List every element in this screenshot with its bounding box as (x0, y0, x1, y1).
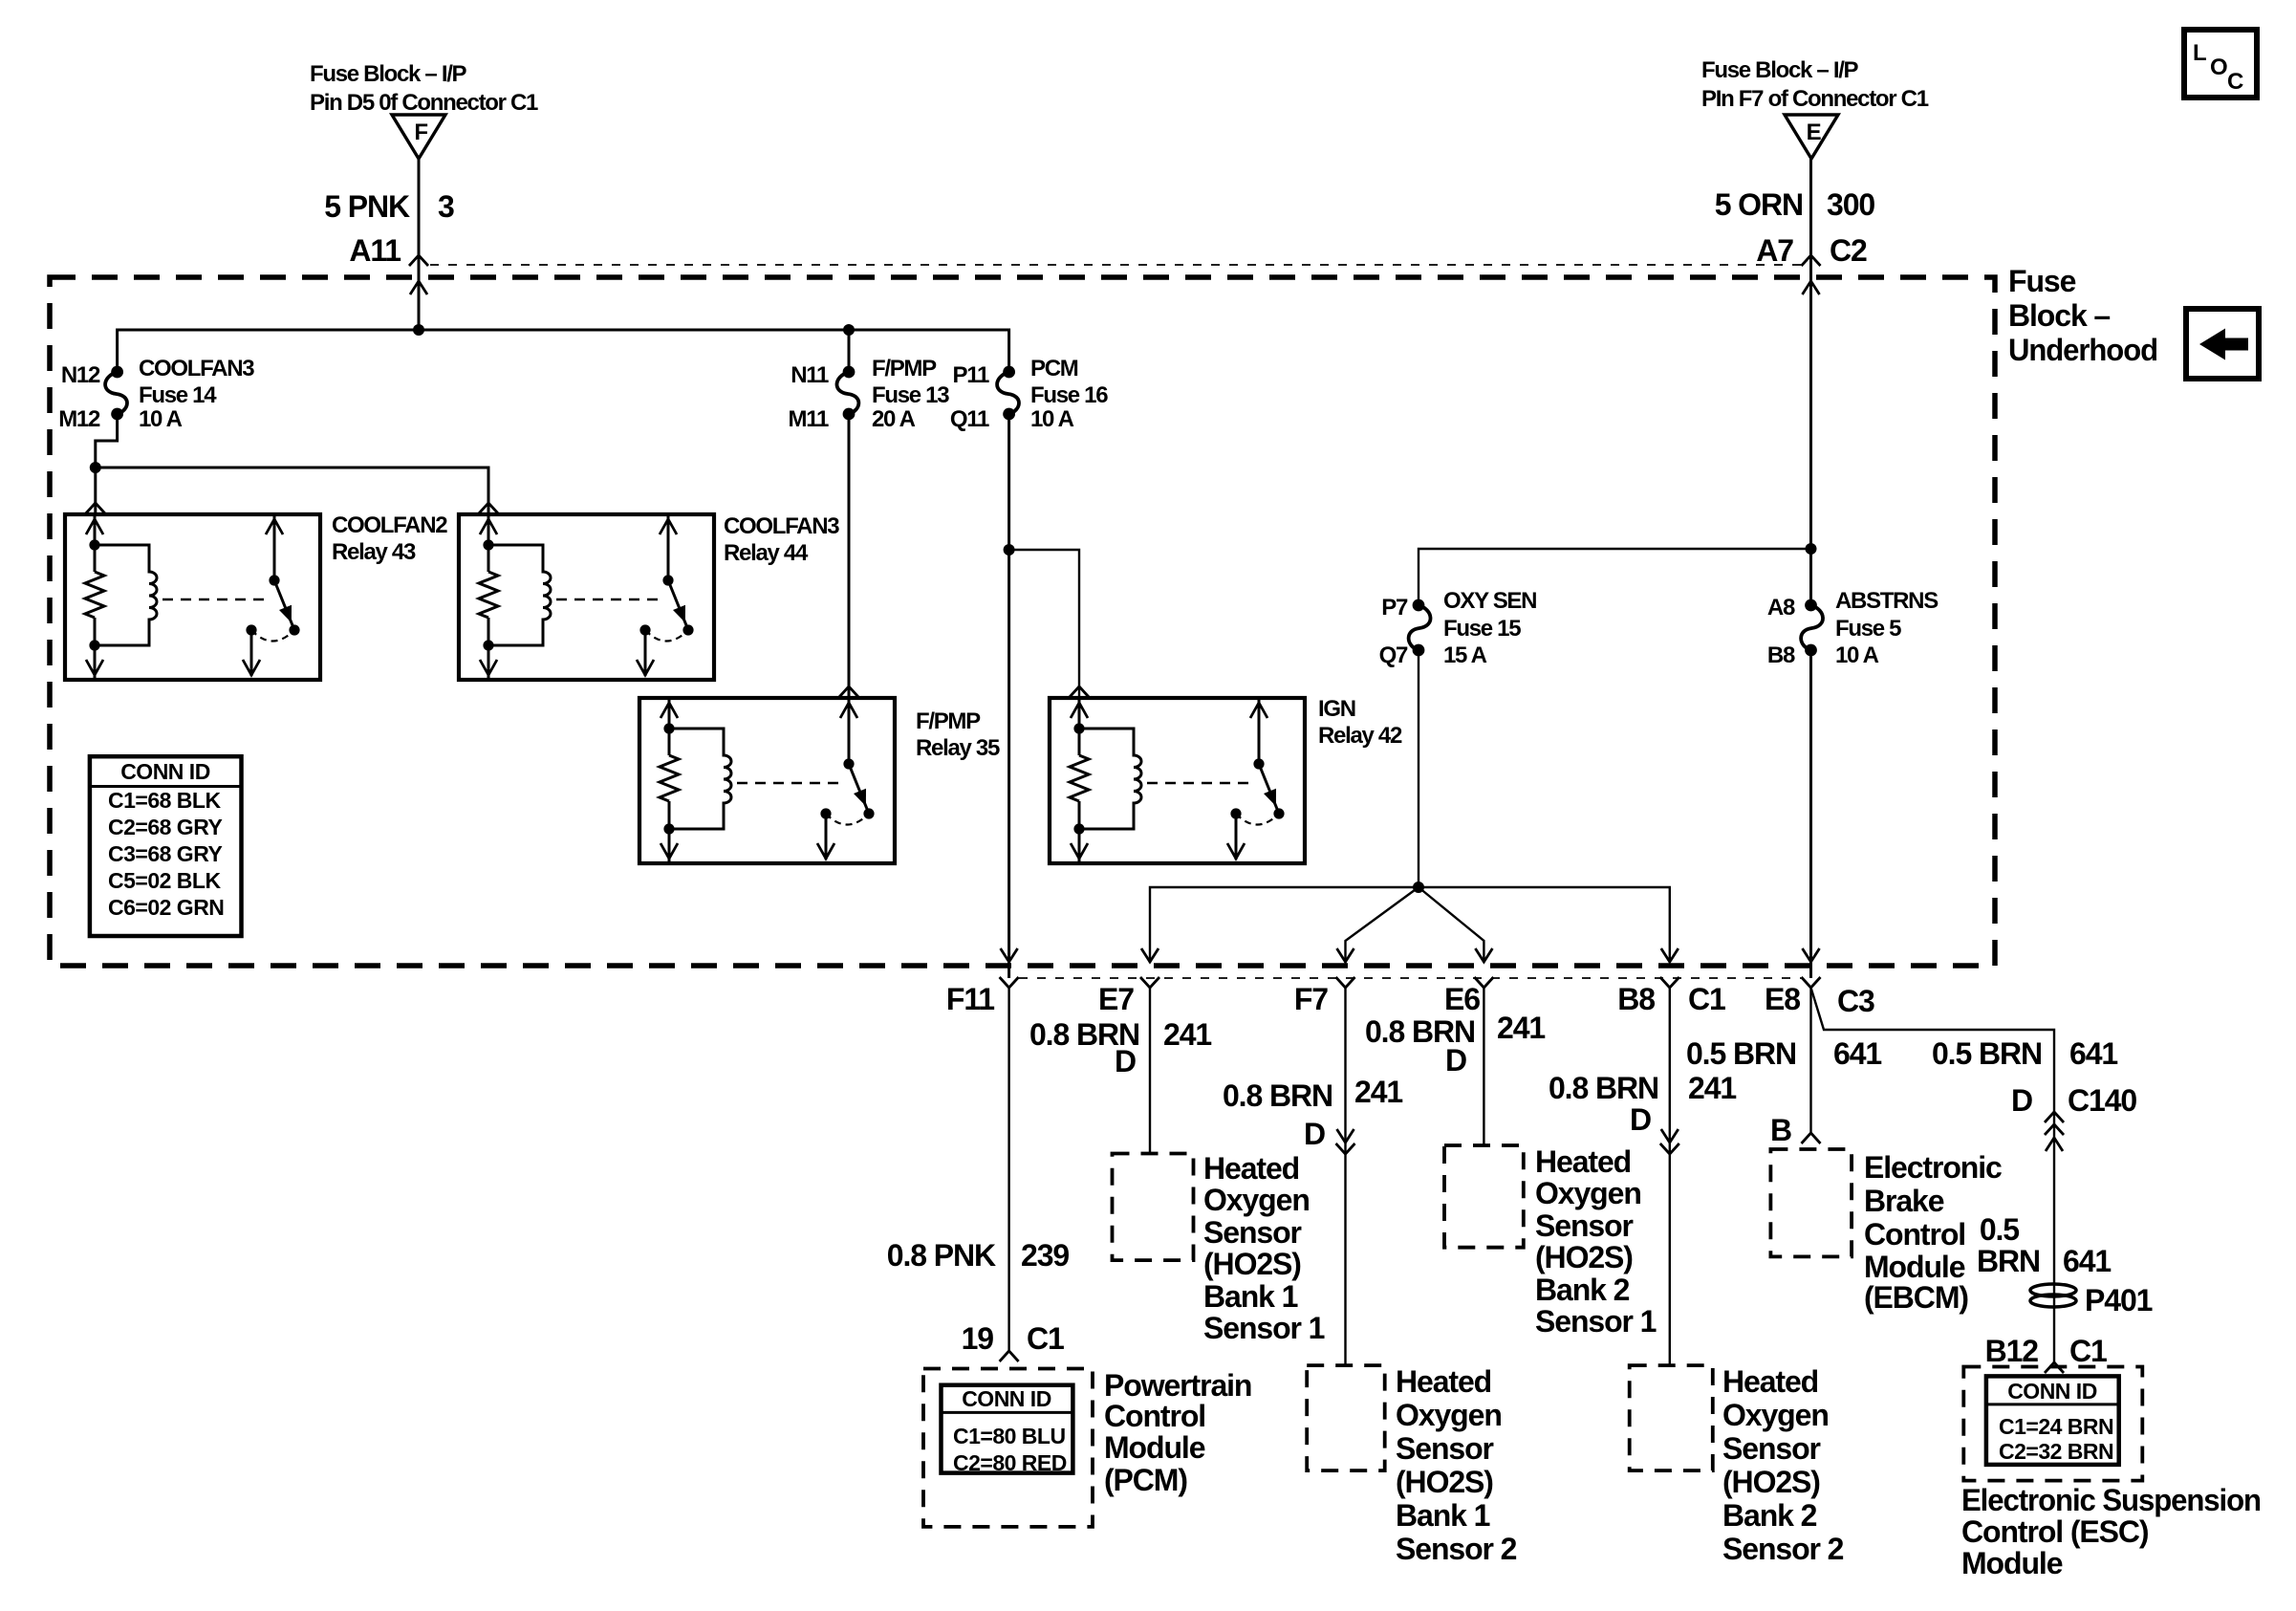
fan-out wire to E7 (1150, 887, 1419, 963)
HO2S Bank1 Sensor1 module (1113, 1151, 1325, 1345)
svg-text:A7: A7 (1756, 233, 1793, 268)
svg-text:300: 300 (1827, 187, 1874, 222)
svg-text:C2=80 RED: C2=80 RED (953, 1450, 1067, 1475)
svg-text:OXY SEN: OXY SEN (1443, 588, 1536, 614)
svg-text:C2=32 BRN: C2=32 BRN (1999, 1439, 2113, 1464)
fuse 5 ABSTRNS (1767, 588, 1939, 668)
svg-text:B12: B12 (1985, 1334, 2039, 1368)
svg-text:C2: C2 (1830, 233, 1867, 268)
svg-text:0.5 BRN: 0.5 BRN (1686, 1036, 1796, 1071)
wire F11 to PCM (0.8 PNK 239) (887, 988, 1070, 1361)
svg-text:Fuse 15: Fuse 15 (1443, 616, 1521, 642)
svg-text:C3: C3 (1837, 984, 1874, 1018)
svg-text:Bank 2: Bank 2 (1722, 1498, 1817, 1533)
svg-text:Oxygen: Oxygen (1396, 1398, 1502, 1432)
svg-text:Sensor 2: Sensor 2 (1396, 1532, 1517, 1566)
svg-text:COOLFAN3: COOLFAN3 (724, 513, 839, 539)
svg-text:COOLFAN2: COOLFAN2 (332, 512, 447, 538)
svg-text:CONN ID: CONN ID (962, 1386, 1051, 1411)
svg-text:19: 19 (962, 1321, 994, 1356)
svg-text:C1: C1 (2069, 1334, 2107, 1368)
svg-text:BRN: BRN (1977, 1244, 2040, 1278)
svg-text:Heated: Heated (1535, 1144, 1631, 1179)
svg-text:C140: C140 (2068, 1083, 2136, 1118)
svg-text:Underhood: Underhood (2008, 333, 2157, 367)
svg-text:D: D (2011, 1083, 2032, 1118)
wire F7 to HO2S B1S2 (0.8 BRN 241 D) (1223, 988, 1402, 1365)
svg-text:A11: A11 (349, 233, 401, 268)
svg-text:Electronic: Electronic (1864, 1150, 2002, 1185)
EBCM module (1770, 1149, 2002, 1315)
svg-text:0.8 PNK: 0.8 PNK (887, 1238, 996, 1273)
grommet P401 (2030, 1283, 2153, 1317)
ESC module (1961, 1367, 2261, 1581)
connector E triangle (Fuse Block I/P) (1701, 57, 1929, 159)
svg-text:L: L (2193, 40, 2206, 66)
svg-text:Relay 43: Relay 43 (332, 539, 416, 565)
svg-text:5 PNK: 5 PNK (324, 189, 410, 224)
svg-text:0.5 BRN: 0.5 BRN (1932, 1036, 2042, 1071)
svg-text:Sensor: Sensor (1535, 1208, 1634, 1243)
svg-text:Module: Module (1104, 1430, 1205, 1465)
svg-text:Block –: Block – (2008, 298, 2110, 333)
svg-text:E8: E8 (1765, 982, 1800, 1016)
svg-text:C1=80 BLU: C1=80 BLU (953, 1424, 1066, 1448)
svg-text:PIn F7 of Connector C1: PIn F7 of Connector C1 (1701, 86, 1929, 112)
wire fuse16 down to F11 exit (1004, 414, 1015, 978)
svg-text:(HO2S): (HO2S) (1203, 1247, 1301, 1281)
svg-text:C1: C1 (1027, 1321, 1064, 1356)
svg-text:Bank 2: Bank 2 (1535, 1273, 1630, 1307)
svg-text:N12: N12 (61, 362, 100, 388)
wire E8 to EBCM (0.5 BRN 641 B) (1686, 988, 1881, 1147)
connector F triangle (Fuse Block I/P) (310, 61, 538, 159)
svg-text:B8: B8 (1767, 642, 1795, 668)
svg-text:641: 641 (2063, 1244, 2111, 1278)
svg-text:C2=68 GRY: C2=68 GRY (108, 815, 222, 839)
svg-text:Relay 42: Relay 42 (1318, 723, 1402, 749)
fuse 15 OXY SEN (1379, 588, 1537, 668)
svg-text:Sensor: Sensor (1396, 1431, 1494, 1466)
node relay feed junction (90, 462, 101, 473)
connector Y symbols at C1/C3 line (1000, 977, 1821, 988)
svg-text:241: 241 (1497, 1011, 1545, 1045)
svg-text:Heated: Heated (1722, 1364, 1818, 1399)
svg-text:Q11: Q11 (950, 406, 989, 432)
svg-text:Oxygen: Oxygen (1203, 1183, 1310, 1217)
svg-text:C1=68 BLK: C1=68 BLK (108, 788, 221, 813)
svg-text:Sensor 1: Sensor 1 (1535, 1304, 1657, 1339)
wire label 0.5 BRN 641 lower (1977, 1212, 2111, 1278)
svg-text:641: 641 (2069, 1036, 2117, 1071)
svg-text:B: B (1770, 1113, 1791, 1147)
svg-text:Fuse Block – I/P: Fuse Block – I/P (1701, 57, 1859, 83)
fuse 16 PCM (950, 356, 1108, 432)
svg-text:Sensor: Sensor (1722, 1431, 1821, 1466)
svg-text:Control (ESC): Control (ESC) (1961, 1514, 2149, 1549)
svg-text:C6=02 GRN: C6=02 GRN (108, 895, 224, 920)
svg-text:Fuse 5: Fuse 5 (1835, 616, 1901, 642)
HO2S Bank1 Sensor2 module (1307, 1364, 1516, 1566)
LOC box (2184, 30, 2257, 98)
Fuse Block Underhood dashed box (50, 264, 2157, 966)
pin labels bottom connector row (946, 982, 1874, 1018)
svg-text:O: O (2210, 54, 2227, 80)
svg-text:20 A: 20 A (872, 406, 916, 432)
svg-text:Pin D5 0f Connector C1: Pin D5 0f Connector C1 (310, 90, 538, 116)
svg-text:Electronic Suspension: Electronic Suspension (1961, 1483, 2261, 1517)
svg-text:F7: F7 (1294, 982, 1328, 1016)
svg-text:241: 241 (1163, 1017, 1211, 1052)
svg-text:C3=68 GRY: C3=68 GRY (108, 841, 222, 866)
svg-text:239: 239 (1021, 1238, 1069, 1273)
svg-text:N11: N11 (791, 362, 829, 388)
svg-text:D: D (1445, 1043, 1466, 1078)
svg-text:F: F (414, 120, 427, 145)
svg-text:3: 3 (438, 189, 454, 224)
svg-text:E: E (1807, 120, 1822, 145)
svg-text:Control: Control (1864, 1217, 1965, 1252)
svg-text:241: 241 (1688, 1071, 1736, 1105)
border arrows at fuse block exits (1001, 948, 1820, 962)
svg-text:Heated: Heated (1396, 1364, 1491, 1399)
svg-text:Bank 1: Bank 1 (1396, 1498, 1490, 1533)
svg-text:241: 241 (1354, 1075, 1402, 1109)
fuse 14 COOLFAN3 (58, 356, 254, 432)
svg-text:Sensor: Sensor (1203, 1215, 1302, 1250)
svg-text:E7: E7 (1098, 982, 1134, 1016)
svg-text:P11: P11 (953, 362, 989, 388)
svg-text:P401: P401 (2085, 1283, 2153, 1317)
arrow box (back reference) (2186, 309, 2259, 379)
svg-text:B8: B8 (1617, 982, 1655, 1016)
svg-text:D: D (1304, 1117, 1325, 1151)
node bus/A11 junction (413, 324, 424, 336)
svg-text:Fuse: Fuse (2008, 264, 2076, 298)
svg-text:Control: Control (1104, 1399, 1205, 1433)
svg-text:0.8 BRN: 0.8 BRN (1223, 1078, 1332, 1113)
wire E7 to HO2S B1S1 (0.8 BRN 241 D) (1029, 988, 1211, 1154)
fan-out wire to E6 (1419, 887, 1484, 963)
svg-text:Sensor 1: Sensor 1 (1203, 1311, 1325, 1345)
svg-text:(HO2S): (HO2S) (1396, 1465, 1493, 1499)
svg-text:Fuse 14: Fuse 14 (139, 382, 217, 408)
svg-text:Oxygen: Oxygen (1535, 1176, 1641, 1210)
svg-text:C1: C1 (1688, 982, 1725, 1016)
relay 35 F/PMP (639, 698, 1000, 863)
relay 44 COOLFAN3 (459, 513, 839, 680)
node PCM fuse output junction (1004, 544, 1015, 555)
svg-text:M12: M12 (58, 406, 100, 432)
thin connector line bottom (1019, 977, 1801, 979)
svg-text:Fuse Block – I/P: Fuse Block – I/P (310, 61, 467, 87)
fuse 13 F/PMP (789, 356, 950, 432)
fan-out wire to B8 (1419, 887, 1670, 963)
HO2S Bank2 Sensor1 module (1444, 1144, 1657, 1339)
svg-text:(PCM): (PCM) (1104, 1463, 1187, 1497)
svg-text:CONN ID: CONN ID (120, 759, 210, 784)
svg-text:(HO2S): (HO2S) (1535, 1240, 1633, 1274)
svg-text:(HO2S): (HO2S) (1722, 1465, 1820, 1499)
svg-text:Q7: Q7 (1379, 642, 1408, 668)
wire fuse13 to relay35 (839, 330, 858, 698)
svg-text:10 A: 10 A (1030, 406, 1074, 432)
fan-out wire to F7 (1346, 887, 1419, 963)
svg-text:Relay 35: Relay 35 (916, 735, 1000, 761)
svg-text:(EBCM): (EBCM) (1864, 1280, 1968, 1315)
wire fuse15 to fan-out junction (1413, 650, 1424, 893)
branch to IGN relay coil (1009, 550, 1079, 698)
svg-text:Module: Module (1961, 1546, 2063, 1580)
svg-text:Module: Module (1864, 1250, 1965, 1284)
svg-text:Fuse 13: Fuse 13 (872, 382, 949, 408)
svg-text:Bank 1: Bank 1 (1203, 1279, 1298, 1314)
svg-text:D: D (1115, 1044, 1136, 1078)
wire B8 to HO2S B2S2 (0.8 BRN 241 D) (1549, 988, 1736, 1365)
svg-text:F11: F11 (946, 982, 994, 1016)
wire E6 to HO2S B2S1 (0.8 BRN 241 D) (1365, 988, 1545, 1145)
thin connector line top (430, 264, 1801, 266)
PCM module dashed box (923, 1368, 1251, 1527)
svg-text:Heated: Heated (1203, 1151, 1299, 1186)
svg-text:5 ORN: 5 ORN (1715, 187, 1803, 222)
svg-text:10 A: 10 A (139, 406, 183, 432)
svg-text:E6: E6 (1444, 982, 1480, 1016)
svg-text:641: 641 (1833, 1036, 1881, 1071)
wire fuse14 to relays junction (86, 414, 498, 514)
svg-text:15 A: 15 A (1443, 642, 1487, 668)
svg-text:10 A: 10 A (1835, 642, 1879, 668)
svg-text:0.8 BRN: 0.8 BRN (1549, 1071, 1658, 1105)
svg-text:0.5: 0.5 (1980, 1212, 2019, 1247)
svg-text:C5=02 BLK: C5=02 BLK (108, 868, 221, 893)
svg-text:C: C (2227, 69, 2243, 95)
bus wire from A11 feed (118, 324, 1009, 372)
svg-text:F/PMP: F/PMP (872, 356, 937, 381)
branch wire to OXY SEN fuse from E feed (1419, 543, 1817, 605)
CONN ID table fuse block (90, 756, 242, 936)
wire fuse5 down to E8 exit (1809, 650, 1812, 978)
node fan-out junction (1413, 882, 1424, 893)
HO2S Bank2 Sensor2 module (1630, 1364, 1844, 1566)
svg-text:Fuse 16: Fuse 16 (1030, 382, 1108, 408)
svg-text:PCM: PCM (1030, 356, 1078, 381)
svg-text:M11: M11 (789, 406, 829, 432)
svg-text:Brake: Brake (1864, 1184, 1944, 1218)
svg-text:CONN ID: CONN ID (2007, 1379, 2097, 1404)
svg-text:Relay 44: Relay 44 (724, 540, 809, 566)
connector C140 (D) (2011, 1083, 2136, 1151)
svg-text:C1=24 BRN: C1=24 BRN (1999, 1414, 2113, 1439)
svg-text:F/PMP: F/PMP (916, 708, 981, 734)
node E feed junction (1806, 543, 1817, 555)
wire F to fuse block (5 PNK 3, A11) (324, 159, 454, 330)
svg-text:ABSTRNS: ABSTRNS (1835, 588, 1939, 614)
svg-text:Powertrain: Powertrain (1104, 1368, 1251, 1403)
svg-text:IGN: IGN (1318, 696, 1355, 722)
node bus/fuse13 junction (843, 324, 855, 336)
pin B12 C1 labels (1985, 1334, 2107, 1368)
svg-text:Oxygen: Oxygen (1722, 1398, 1829, 1432)
svg-text:Sensor 2: Sensor 2 (1722, 1532, 1844, 1566)
relay 42 IGN (1050, 696, 1402, 863)
svg-text:A8: A8 (1767, 595, 1795, 620)
relay 43 COOLFAN2 (65, 512, 447, 680)
svg-text:P7: P7 (1381, 595, 1408, 620)
svg-text:D: D (1630, 1102, 1651, 1137)
wire E to fuse block (5 ORN 300, A7 C2) (1715, 159, 1875, 605)
svg-text:COOLFAN3: COOLFAN3 (139, 356, 254, 381)
wire E8/C3 to ESC (0.5 BRN 641) (1811, 988, 2118, 1373)
